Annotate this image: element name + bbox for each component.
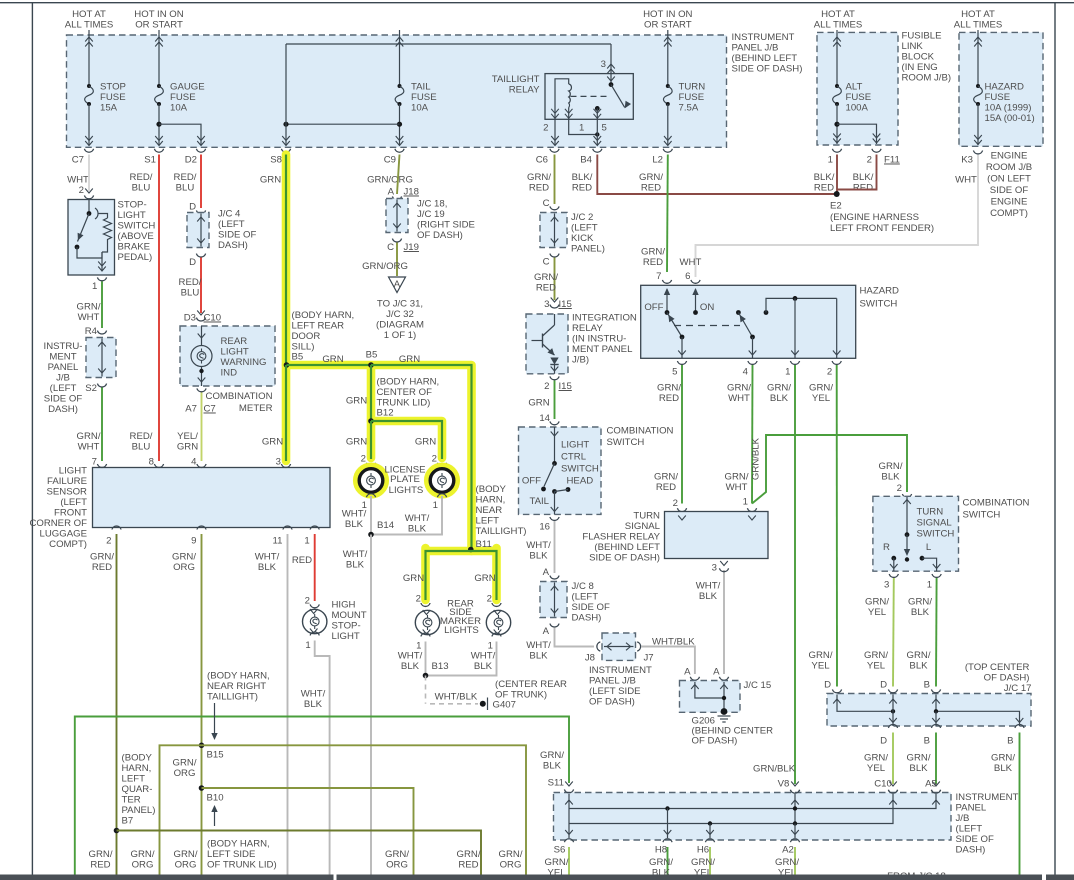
fusible link block label	[902, 31, 952, 84]
svg-text:TAIL: TAIL	[411, 82, 431, 93]
svg-text:ALL TIMES: ALL TIMES	[954, 19, 1003, 30]
svg-text:RED: RED	[292, 555, 312, 566]
svg-text:HAZARD: HAZARD	[860, 286, 900, 297]
light ctrl switch contacts	[522, 427, 593, 514]
svg-text:RED: RED	[656, 482, 676, 493]
svg-text:15A (00-01): 15A (00-01)	[985, 113, 1035, 124]
svg-text:BLU: BLU	[181, 288, 200, 299]
svg-text:SIDE OF DASH): SIDE OF DASH)	[589, 553, 660, 564]
wire GRN/WHT to R4	[77, 282, 107, 338]
svg-text:RELAY: RELAY	[572, 323, 603, 334]
svg-text:TO J/C 31,: TO J/C 31,	[377, 299, 423, 310]
svg-text:GRN/ORG: GRN/ORG	[367, 175, 413, 186]
svg-text:4: 4	[191, 457, 197, 468]
svg-text:S11: S11	[548, 778, 564, 789]
turn signal switch label	[917, 507, 955, 540]
svg-text:GAUGE: GAUGE	[170, 82, 205, 93]
instrument panel J/B left side of dash label	[589, 665, 652, 708]
svg-text:I15: I15	[559, 299, 572, 310]
fusible link block box	[817, 32, 898, 145]
svg-text:RED: RED	[641, 183, 661, 194]
wire C9 GRN/ORG to J/C18	[388, 155, 419, 200]
taillight relay U1 box	[545, 74, 633, 120]
svg-text:ROOM J/B: ROOM J/B	[986, 162, 1032, 173]
svg-text:GRN/: GRN/	[991, 753, 1015, 764]
wire GRN B5 to sensor pin 3	[262, 365, 286, 461]
svg-text:A2: A2	[782, 845, 794, 856]
svg-text:C6: C6	[536, 155, 548, 166]
svg-text:LIGHTS: LIGHTS	[389, 485, 424, 496]
wire GRN/BLK turn sig pin1 to J/C17	[907, 578, 937, 687]
svg-text:J/C 19: J/C 19	[417, 209, 445, 220]
svg-text:S1: S1	[144, 155, 156, 166]
svg-text:2: 2	[106, 536, 111, 547]
svg-text:HOT AT: HOT AT	[821, 9, 855, 20]
bottom instrument panel J/B label	[956, 792, 1019, 856]
integration relay transistor	[532, 314, 559, 374]
wire GRN/WHT S2 to sensor pin 7	[77, 388, 102, 462]
svg-text:S2: S2	[85, 383, 97, 394]
svg-text:GRN/: GRN/	[864, 753, 888, 764]
license lamp pin 1 cups	[362, 494, 447, 511]
svg-text:J19: J19	[404, 242, 419, 253]
svg-text:J/C 32: J/C 32	[386, 309, 414, 320]
wire WHT/BLK right license to B14	[371, 496, 442, 535]
svg-text:COMBINATION: COMBINATION	[607, 426, 674, 437]
combination switch (light ctrl) box	[519, 427, 602, 514]
svg-text:WHT/: WHT/	[526, 640, 551, 651]
svg-text:GRN: GRN	[415, 437, 436, 448]
svg-text:GRN/: GRN/	[77, 302, 101, 313]
hot at all times label (stop fuse)	[65, 9, 114, 30]
svg-text:I15: I15	[559, 381, 572, 392]
svg-text:WHT/: WHT/	[696, 581, 721, 592]
svg-text:GRN: GRN	[399, 354, 420, 365]
svg-text:RED/: RED/	[130, 172, 153, 183]
svg-text:BLK: BLK	[699, 591, 718, 602]
svg-text:RED: RED	[853, 183, 873, 194]
svg-text:(ABOVE: (ABOVE	[118, 231, 154, 242]
turn signal switch contacts	[883, 497, 940, 571]
svg-text:TURN: TURN	[679, 82, 706, 93]
svg-text:GRN/: GRN/	[907, 753, 931, 764]
svg-text:BRAKE: BRAKE	[118, 242, 151, 253]
svg-text:GRN/: GRN/	[809, 650, 833, 661]
svg-text:WHT: WHT	[728, 393, 750, 404]
svg-text:2: 2	[867, 155, 872, 166]
svg-text:(BODY HARN,: (BODY HARN,	[207, 839, 270, 850]
stop-light switch label	[118, 200, 156, 264]
wire WHT/BLK J/C8 to J8	[526, 628, 594, 662]
svg-text:OR START: OR START	[135, 19, 183, 30]
hazard switch label	[860, 286, 900, 310]
svg-text:J8: J8	[585, 653, 595, 664]
svg-text:1 OF 1): 1 OF 1)	[384, 330, 417, 341]
svg-text:BLK: BLK	[911, 607, 930, 618]
svg-text:OF DASH): OF DASH)	[984, 673, 1030, 684]
svg-text:V8: V8	[778, 779, 790, 790]
svg-text:B13: B13	[432, 661, 449, 672]
svg-text:(IN ENG: (IN ENG	[902, 62, 938, 73]
wire GRN I15 to combination switch pin 14	[528, 381, 559, 425]
svg-text:L2: L2	[652, 155, 663, 166]
svg-text:BLU: BLU	[132, 183, 151, 194]
wire GRN B12 to left license lamp	[346, 421, 376, 466]
svg-text:10A: 10A	[170, 103, 188, 114]
tail fuse 10A	[395, 30, 436, 146]
svg-text:OFF: OFF	[644, 302, 663, 313]
body harn left rear door sill label	[292, 310, 355, 363]
svg-text:YEL: YEL	[811, 661, 830, 672]
svg-text:J/B): J/B)	[572, 355, 589, 366]
svg-text:LEFT: LEFT	[476, 516, 500, 527]
svg-text:FLASHER RELAY: FLASHER RELAY	[582, 532, 660, 543]
svg-text:WHT/: WHT/	[471, 651, 496, 662]
svg-text:TAILLIGHT: TAILLIGHT	[492, 74, 540, 85]
svg-text:COMPT): COMPT)	[990, 208, 1028, 219]
bottom J/B internal bus wiring	[565, 794, 940, 838]
svg-text:GRN: GRN	[346, 437, 367, 448]
K3 connector cup	[955, 151, 983, 186]
svg-text:GRN/: GRN/	[457, 849, 481, 860]
connector row labels	[72, 155, 663, 166]
svg-text:PANEL: PANEL	[48, 362, 79, 373]
svg-text:RED: RED	[572, 183, 592, 194]
svg-text:GRN/: GRN/	[545, 857, 569, 868]
svg-text:SIDE OF: SIDE OF	[218, 230, 257, 241]
hazard fuse 10A/15A	[974, 30, 1035, 145]
svg-text:S8: S8	[270, 155, 282, 166]
svg-text:3: 3	[601, 59, 606, 70]
svg-text:BLK: BLK	[909, 763, 928, 774]
node B14	[368, 520, 395, 537]
svg-text:R: R	[883, 542, 890, 553]
stop-light switch internals	[75, 200, 112, 272]
svg-text:(BODY HARN,: (BODY HARN,	[207, 671, 270, 682]
svg-text:J/C 17: J/C 17	[1004, 683, 1032, 694]
svg-text:SENSOR: SENSOR	[46, 487, 87, 498]
svg-text:RED/: RED/	[174, 172, 197, 183]
svg-text:GRN/: GRN/	[90, 552, 114, 563]
svg-text:FUSE: FUSE	[985, 92, 1011, 103]
svg-text:2: 2	[361, 454, 366, 465]
svg-text:B10: B10	[207, 793, 224, 804]
body harn left side of trunk lid label with arrow	[207, 805, 277, 871]
svg-text:GRN/: GRN/	[385, 849, 409, 860]
body harn near left taillight label	[476, 484, 527, 550]
svg-text:1: 1	[927, 580, 932, 591]
svg-text:FUSE: FUSE	[679, 92, 705, 103]
svg-text:(DIAGRAM: (DIAGRAM	[376, 320, 424, 331]
svg-text:GRN/: GRN/	[527, 172, 551, 183]
svg-text:MENT: MENT	[49, 352, 76, 363]
svg-text:GRN/: GRN/	[89, 849, 113, 860]
svg-text:D: D	[824, 680, 831, 691]
wire GRN B11 to marker lamps	[403, 551, 501, 606]
svg-text:PEDAL): PEDAL)	[118, 252, 153, 263]
svg-text:OR START: OR START	[644, 19, 692, 30]
svg-text:LINK: LINK	[902, 41, 924, 52]
svg-text:E2: E2	[830, 201, 842, 212]
wire GRN/BLK J/C17 B to bottom	[1019, 733, 1021, 875]
svg-text:GRN: GRN	[262, 437, 283, 448]
svg-text:OF TRUNK): OF TRUNK)	[495, 689, 547, 700]
svg-text:LIGHT: LIGHT	[561, 440, 589, 451]
svg-text:GRN/: GRN/	[775, 857, 799, 868]
wire C7 WHT to stop light switch	[79, 155, 94, 199]
wire GRN/RED L2 to hazard pin 7	[641, 155, 701, 284]
svg-text:J18: J18	[404, 187, 419, 198]
bottom wire labels left	[89, 849, 523, 871]
svg-text:BLK/: BLK/	[814, 172, 835, 183]
svg-text:1: 1	[828, 155, 833, 166]
svg-text:GRN/: GRN/	[654, 472, 678, 483]
rear light warning ind box	[180, 326, 275, 386]
integration relay box	[526, 314, 568, 374]
svg-text:HARN,: HARN,	[476, 495, 506, 506]
svg-text:9: 9	[191, 536, 196, 547]
I15 pin 2 cup	[544, 376, 572, 392]
turn fuse 7.5A	[663, 30, 705, 146]
engine room J/B label	[986, 151, 1032, 220]
node B13	[423, 661, 449, 678]
svg-text:PANEL J/B: PANEL J/B	[732, 43, 779, 54]
svg-text:GRN: GRN	[260, 175, 281, 186]
license plate light left bulb	[356, 466, 386, 496]
svg-text:D: D	[189, 257, 196, 268]
svg-text:WHT/: WHT/	[343, 549, 368, 560]
instrument panel J/B junction box R4/S2	[85, 338, 116, 395]
svg-text:LIGHT: LIGHT	[118, 210, 146, 221]
svg-text:BLU: BLU	[176, 183, 195, 194]
svg-text:1: 1	[743, 497, 748, 508]
GRN/ORG label mid	[173, 758, 197, 780]
svg-text:WHT: WHT	[78, 312, 100, 323]
svg-text:HIGH: HIGH	[332, 600, 356, 611]
svg-text:FUSIBLE: FUSIBLE	[902, 31, 942, 42]
svg-text:YEL: YEL	[868, 607, 887, 618]
high mount pin 1 cup	[305, 632, 319, 651]
high mount stop-light label	[332, 600, 367, 643]
svg-text:RED: RED	[90, 860, 110, 871]
svg-text:A5: A5	[925, 779, 937, 790]
svg-text:WHT/: WHT/	[301, 689, 326, 700]
svg-text:INSTRUMENT: INSTRUMENT	[732, 32, 795, 43]
wire GRN/ORG B15 branch line	[160, 745, 527, 874]
svg-text:CTRL: CTRL	[561, 452, 587, 463]
svg-text:3: 3	[712, 563, 717, 574]
svg-text:C10: C10	[204, 313, 222, 324]
node B12	[368, 418, 374, 424]
rear light warning indicator lamp	[191, 326, 212, 386]
wire GRN/YEL J/C17 to C10	[874, 733, 897, 794]
taillight relay pin labels 2 1 5	[543, 123, 607, 134]
svg-text:3: 3	[276, 457, 281, 468]
turn signal flasher relay box	[665, 512, 769, 559]
bottom J/B exit wires	[569, 847, 795, 875]
svg-text:A: A	[684, 667, 691, 678]
svg-text:6: 6	[685, 271, 690, 282]
svg-text:TER: TER	[122, 795, 141, 806]
svg-text:LEFT SIDE: LEFT SIDE	[207, 849, 255, 860]
svg-text:2: 2	[305, 596, 310, 607]
wire WHT/BLK B14 to bottom	[343, 535, 371, 875]
svg-text:(BODY HARN,: (BODY HARN,	[292, 310, 355, 321]
svg-text:GRN/: GRN/	[174, 849, 198, 860]
svg-text:SIDE OF: SIDE OF	[572, 602, 611, 613]
page top border line	[0, 2, 1074, 4]
footer bar	[0, 875, 1074, 880]
svg-text:2: 2	[673, 498, 678, 509]
instrument panel J/B (left side of dash) label	[44, 341, 83, 415]
svg-text:(BEHIND LEFT: (BEHIND LEFT	[732, 53, 798, 64]
svg-text:RED: RED	[458, 860, 478, 871]
svg-text:3: 3	[544, 299, 549, 310]
svg-text:2: 2	[897, 483, 902, 494]
svg-text:BLK: BLK	[258, 562, 277, 573]
wire WHT/BLK J7 to J/C15	[641, 637, 700, 681]
svg-text:GRN/: GRN/	[727, 383, 751, 394]
svg-text:LEFT: LEFT	[122, 774, 146, 785]
svg-text:ON: ON	[700, 302, 714, 313]
svg-text:ORG: ORG	[500, 860, 522, 871]
svg-text:YEL: YEL	[867, 763, 886, 774]
hot at all times label (hazard fuse)	[954, 9, 1003, 30]
wire GRN/YEL hazard pin2 to J/C17	[809, 365, 837, 687]
svg-text:WHT/: WHT/	[398, 651, 423, 662]
svg-text:SIDE OF: SIDE OF	[990, 185, 1029, 196]
svg-text:D3: D3	[184, 313, 196, 324]
svg-text:GRN: GRN	[177, 442, 198, 453]
svg-text:C7: C7	[204, 404, 216, 415]
svg-text:HAZARD: HAZARD	[985, 82, 1025, 93]
svg-text:COMPT): COMPT)	[49, 539, 87, 550]
svg-text:BLK: BLK	[474, 661, 493, 672]
svg-text:D: D	[880, 736, 887, 747]
svg-text:TURN: TURN	[633, 511, 660, 522]
J/C 17 bottom cups and labels	[880, 724, 1024, 746]
svg-text:(BODY: (BODY	[476, 484, 507, 495]
svg-text:B7: B7	[122, 816, 134, 827]
svg-text:CORNER OF: CORNER OF	[29, 518, 87, 529]
svg-text:H8: H8	[655, 845, 667, 856]
integration relay label	[572, 313, 637, 366]
wire GRN/ORG sensor pin9 through B15 B10 to bottom	[201, 534, 203, 875]
G206 label	[692, 715, 774, 746]
svg-text:RED/: RED/	[130, 431, 153, 442]
svg-text:1: 1	[579, 123, 584, 134]
J/C 17 bottom wire labels	[864, 753, 1015, 775]
svg-text:(TOP CENTER: (TOP CENTER	[965, 662, 1030, 673]
wire WHT/BLK high mount to bottom	[301, 641, 330, 875]
svg-text:COMBINATION: COMBINATION	[963, 498, 1030, 509]
hazard switch internals	[644, 288, 840, 358]
svg-text:BLK: BLK	[401, 661, 420, 672]
alt fuse junction to F11 pin 2	[834, 122, 880, 144]
svg-text:D: D	[880, 680, 887, 691]
svg-text:RED: RED	[529, 183, 549, 194]
center rear of trunk label	[495, 679, 567, 700]
ground G206	[718, 708, 731, 722]
svg-text:COMBINATION: COMBINATION	[206, 391, 273, 402]
wire GRN/WHT hazard pin4 to flasher pin1	[725, 365, 757, 512]
svg-text:100A: 100A	[846, 103, 869, 114]
junction connector J/C 18 J/C 19	[386, 199, 419, 254]
svg-text:HOT IN ON: HOT IN ON	[134, 9, 183, 20]
svg-text:SWITCH: SWITCH	[860, 299, 898, 310]
connector row cups C7 S1 D2 S8 C9 C6 B4 L2	[84, 149, 672, 152]
svg-text:B: B	[924, 680, 930, 691]
svg-text:SWITCH: SWITCH	[607, 437, 645, 448]
svg-text:HOT IN ON: HOT IN ON	[643, 9, 692, 20]
taillight relay contacts	[594, 74, 632, 120]
svg-text:SIDE OF: SIDE OF	[44, 394, 83, 405]
light ctrl switch label	[561, 440, 599, 475]
svg-text:GRN/: GRN/	[77, 431, 101, 442]
svg-text:PLATE: PLATE	[390, 474, 420, 485]
svg-text:GRN/BLK: GRN/BLK	[751, 437, 762, 480]
svg-text:15A: 15A	[100, 103, 118, 114]
wire GRN/BLK J/C17 to A5	[925, 733, 940, 794]
svg-text:BLK: BLK	[345, 519, 364, 530]
svg-text:GRN/: GRN/	[865, 597, 889, 608]
svg-text:WHT: WHT	[67, 175, 89, 186]
svg-text:TAILLIGHT): TAILLIGHT)	[476, 526, 527, 537]
svg-text:BLK: BLK	[529, 551, 548, 562]
svg-text:LEFT REAR: LEFT REAR	[292, 321, 345, 332]
svg-text:J/C 8: J/C 8	[572, 581, 594, 592]
svg-text:GRN/: GRN/	[879, 461, 903, 472]
svg-text:GRN/: GRN/	[809, 383, 833, 394]
svg-text:GRN/ORG: GRN/ORG	[362, 261, 408, 272]
svg-text:A7: A7	[185, 404, 197, 415]
svg-text:ORG: ORG	[132, 860, 154, 871]
svg-text:YEL: YEL	[867, 661, 886, 672]
svg-text:(LEFT: (LEFT	[60, 497, 87, 508]
hot in on or start label (turn fuse)	[643, 9, 692, 30]
node B5 (trunk lid)	[366, 350, 378, 368]
svg-text:2: 2	[487, 594, 492, 605]
svg-text:S6: S6	[554, 845, 566, 856]
bottom J/B bottom cups S6 H8 H6 A2	[554, 839, 800, 856]
svg-text:(ENGINE HARNESS: (ENGINE HARNESS	[830, 212, 919, 223]
svg-text:10A (1999): 10A (1999)	[985, 103, 1032, 114]
svg-text:(RIGHT SIDE: (RIGHT SIDE	[417, 220, 475, 231]
svg-text:(IN INSTRU-: (IN INSTRU-	[572, 334, 626, 345]
svg-text:PANEL): PANEL)	[122, 805, 156, 816]
svg-text:WHT/BLK: WHT/BLK	[652, 637, 695, 648]
svg-text:WHT/: WHT/	[255, 552, 280, 563]
svg-text:WHT: WHT	[78, 442, 100, 453]
flasher relay label	[582, 511, 660, 564]
svg-text:R4: R4	[85, 326, 98, 337]
svg-text:D2: D2	[185, 155, 197, 166]
svg-text:FUSE: FUSE	[170, 92, 196, 103]
svg-text:INSTRU-: INSTRU-	[44, 341, 83, 352]
svg-text:C7: C7	[72, 155, 84, 166]
svg-text:BLOCK: BLOCK	[902, 52, 935, 63]
wire WHT/BLK pin16 to J/C8	[526, 521, 559, 579]
combination switch (turn signal) box	[873, 496, 959, 571]
svg-text:GRN: GRN	[528, 398, 549, 409]
taillight relay pin2 wire to C6	[551, 119, 559, 145]
svg-text:GRN/: GRN/	[540, 750, 564, 761]
svg-text:ENGINE: ENGINE	[991, 151, 1028, 162]
svg-text:IND: IND	[221, 368, 238, 379]
svg-text:J/C 18,: J/C 18,	[417, 199, 447, 210]
svg-text:HEAD: HEAD	[567, 476, 594, 487]
flasher relay pin 3 cup	[712, 563, 729, 574]
